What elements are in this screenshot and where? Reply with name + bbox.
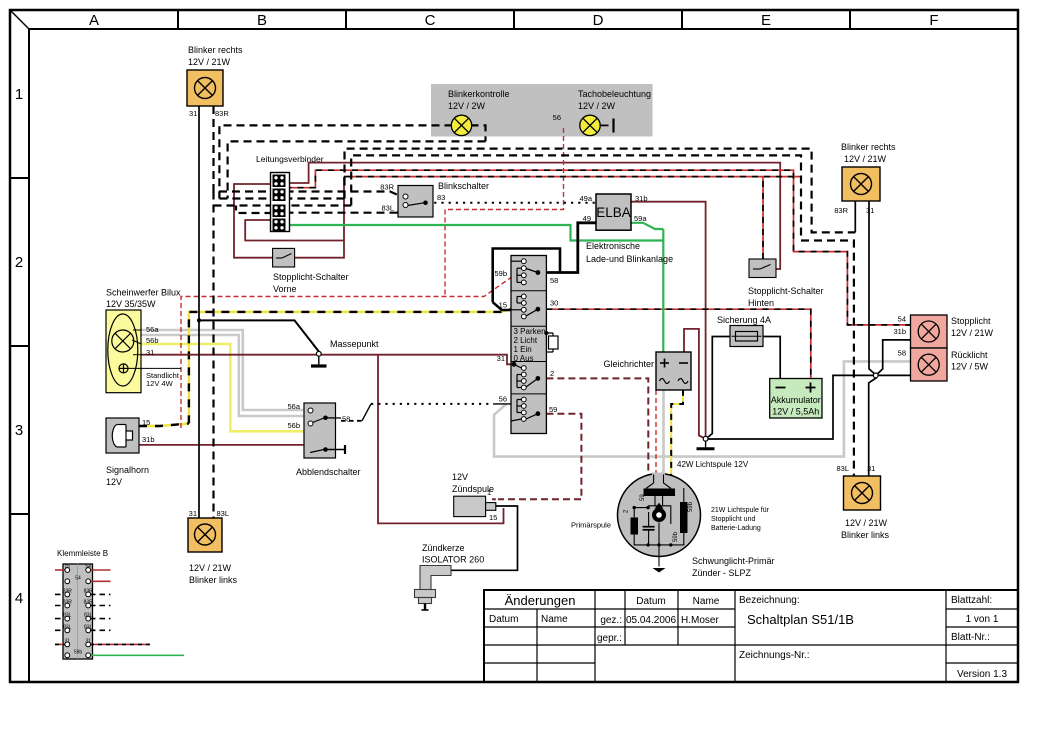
svg-text:31b: 31b [635, 194, 648, 203]
svg-text:54: 54 [898, 315, 906, 324]
svg-text:83R: 83R [63, 600, 73, 606]
svg-text:Batterie-Ladung: Batterie-Ladung [711, 525, 761, 532]
svg-text:Vorne: Vorne [273, 284, 297, 294]
svg-text:31b: 31b [142, 435, 155, 444]
svg-text:59b: 59b [494, 269, 507, 278]
svg-text:1: 1 [487, 488, 491, 497]
svg-text:12V / 2W: 12V / 2W [448, 101, 486, 111]
svg-text:Name: Name [693, 596, 720, 607]
svg-text:A: A [89, 12, 99, 29]
svg-text:05.04.2006: 05.04.2006 [626, 615, 676, 626]
svg-text:15: 15 [489, 513, 497, 522]
svg-text:2: 2 [15, 254, 23, 271]
svg-text:Sicherung 4A: Sicherung 4A [717, 315, 771, 325]
svg-text:83L: 83L [217, 509, 230, 518]
svg-text:Scheinwerfer Bilux: Scheinwerfer Bilux [106, 288, 181, 298]
svg-text:42W Lichtspule 12V: 42W Lichtspule 12V [677, 460, 749, 469]
svg-text:Akkumulator: Akkumulator [771, 395, 821, 405]
svg-text:12V / 21W: 12V / 21W [845, 518, 888, 528]
svg-text:Blinker rechts: Blinker rechts [841, 142, 896, 152]
svg-text:58: 58 [342, 415, 350, 424]
svg-text:Hinten: Hinten [748, 298, 774, 308]
svg-text:56a: 56a [287, 402, 300, 411]
svg-text:59b: 59b [688, 501, 694, 512]
svg-text:D: D [593, 12, 604, 29]
svg-text:Blinkschalter: Blinkschalter [438, 181, 489, 191]
svg-text:3 Parken: 3 Parken [514, 327, 546, 336]
svg-text:15: 15 [499, 301, 507, 310]
svg-text:12V / 5,5Ah: 12V / 5,5Ah [772, 407, 819, 417]
svg-text:Schwunglicht-Primär: Schwunglicht-Primär [692, 556, 775, 566]
svg-text:Gleichrichter: Gleichrichter [603, 359, 654, 369]
svg-text:31: 31 [866, 206, 874, 215]
svg-text:gepr.:: gepr.: [597, 633, 622, 644]
svg-text:59b: 59b [74, 649, 83, 655]
svg-text:Blinker links: Blinker links [841, 530, 890, 540]
svg-text:1 Ein: 1 Ein [514, 345, 532, 354]
svg-text:12V / 21W: 12V / 21W [189, 563, 232, 573]
svg-text:83R: 83R [215, 109, 229, 118]
svg-text:56: 56 [499, 395, 507, 404]
svg-text:Blinkerkontrolle: Blinkerkontrolle [448, 89, 510, 99]
svg-text:4: 4 [15, 590, 23, 607]
svg-text:83R: 83R [380, 183, 394, 192]
svg-text:59b: 59b [673, 531, 679, 542]
svg-text:Abblendschalter: Abblendschalter [296, 467, 361, 477]
svg-text:3: 3 [15, 422, 23, 439]
svg-text:83R: 83R [84, 588, 94, 594]
svg-text:Blinker rechts: Blinker rechts [188, 45, 243, 55]
svg-text:1: 1 [15, 86, 23, 103]
svg-text:ISOLATOR 260: ISOLATOR 260 [422, 555, 484, 565]
svg-text:56: 56 [553, 113, 561, 122]
svg-text:Blatt-Nr.:: Blatt-Nr.: [951, 632, 990, 643]
svg-text:2 Licht: 2 Licht [514, 336, 538, 345]
svg-text:Tachobeleuchtung: Tachobeleuchtung [578, 89, 651, 99]
svg-text:58: 58 [898, 349, 906, 358]
svg-text:E: E [761, 12, 771, 29]
svg-text:Datum: Datum [636, 596, 665, 607]
svg-text:83R: 83R [834, 206, 848, 215]
svg-text:83: 83 [437, 193, 445, 202]
svg-text:B: B [257, 12, 267, 29]
svg-text:12V 35/35W: 12V 35/35W [106, 299, 156, 309]
svg-text:83L: 83L [381, 204, 394, 213]
svg-text:2: 2 [550, 369, 554, 378]
svg-text:83L: 83L [84, 624, 93, 630]
svg-text:12V / 21W: 12V / 21W [951, 328, 994, 338]
svg-text:Rücklicht: Rücklicht [951, 350, 988, 360]
svg-text:Zündkerze: Zündkerze [422, 543, 465, 553]
svg-text:Leitungsverbinder: Leitungsverbinder [256, 154, 324, 164]
svg-text:0 Aus: 0 Aus [514, 354, 534, 363]
svg-text:31b: 31b [893, 327, 906, 336]
svg-text:Änderungen: Änderungen [505, 593, 576, 608]
svg-text:58: 58 [550, 276, 558, 285]
svg-text:15: 15 [142, 418, 150, 427]
svg-text:59: 59 [549, 405, 557, 414]
svg-text:83L: 83L [63, 613, 72, 619]
svg-text:56a: 56a [146, 325, 159, 334]
svg-text:21W Lichtspule für: 21W Lichtspule für [711, 507, 770, 514]
svg-text:Blinker links: Blinker links [189, 575, 238, 585]
svg-text:31: 31 [65, 638, 71, 644]
svg-text:Primärspule: Primärspule [571, 521, 611, 530]
svg-text:83L: 83L [63, 624, 72, 630]
svg-text:H.Moser: H.Moser [681, 615, 719, 626]
svg-text:83L: 83L [836, 464, 849, 473]
svg-text:Zünder - SLPZ: Zünder - SLPZ [692, 568, 752, 578]
svg-text:59: 59 [640, 494, 646, 501]
svg-text:12V: 12V [452, 472, 468, 482]
svg-text:31: 31 [497, 354, 505, 363]
svg-text:Zeichnungs-Nr.:: Zeichnungs-Nr.: [739, 650, 810, 661]
svg-text:31: 31 [85, 638, 91, 644]
svg-text:Blattzahl:: Blattzahl: [951, 595, 992, 606]
svg-text:54: 54 [75, 575, 81, 581]
svg-text:Datum: Datum [489, 614, 518, 625]
svg-text:Stopplicht: Stopplicht [951, 316, 991, 326]
svg-text:gez.:: gez.: [600, 615, 622, 626]
svg-text:12V: 12V [106, 477, 122, 487]
svg-text:15: 15 [65, 564, 71, 570]
svg-text:Massepunkt: Massepunkt [330, 339, 379, 349]
svg-text:12V / 2W: 12V / 2W [578, 101, 616, 111]
svg-text:49: 49 [583, 214, 591, 223]
svg-text:1 von 1: 1 von 1 [966, 614, 999, 625]
svg-text:C: C [425, 12, 436, 29]
svg-text:Bezeichnung:: Bezeichnung: [739, 595, 800, 606]
svg-text:12V / 21W: 12V / 21W [844, 154, 887, 164]
svg-text:12V / 21W: 12V / 21W [188, 57, 231, 67]
svg-text:ELBA: ELBA [596, 205, 631, 220]
svg-text:83L: 83L [84, 613, 93, 619]
svg-text:83R: 83R [63, 588, 73, 594]
svg-text:Stopplicht-Schalter: Stopplicht-Schalter [748, 286, 824, 296]
svg-text:Lade-und Blinkanlage: Lade-und Blinkanlage [586, 254, 673, 264]
svg-text:59a: 59a [634, 214, 647, 223]
svg-text:Klemmleiste B: Klemmleiste B [57, 549, 108, 558]
svg-text:31: 31 [146, 348, 154, 357]
svg-text:Version 1.3: Version 1.3 [957, 669, 1007, 680]
svg-text:Name: Name [541, 614, 568, 625]
svg-text:12V 4W: 12V 4W [146, 379, 174, 388]
svg-text:49a: 49a [579, 194, 592, 203]
svg-text:31: 31 [189, 509, 197, 518]
svg-text:83R: 83R [84, 600, 94, 606]
svg-text:31: 31 [189, 109, 197, 118]
svg-text:Signalhorn: Signalhorn [106, 465, 149, 475]
svg-text:Stopplicht-Schalter: Stopplicht-Schalter [273, 272, 349, 282]
svg-text:Elektronische: Elektronische [586, 241, 640, 251]
svg-text:Schaltplan S51/1B: Schaltplan S51/1B [747, 612, 854, 627]
svg-text:Stopplicht und: Stopplicht und [711, 516, 755, 523]
svg-text:30: 30 [550, 299, 558, 308]
svg-text:12V / 5W: 12V / 5W [951, 362, 989, 372]
svg-text:56b: 56b [146, 336, 159, 345]
svg-text:31: 31 [867, 464, 875, 473]
svg-text:54: 54 [85, 564, 91, 570]
svg-text:F: F [929, 12, 938, 29]
svg-text:56b: 56b [287, 421, 300, 430]
